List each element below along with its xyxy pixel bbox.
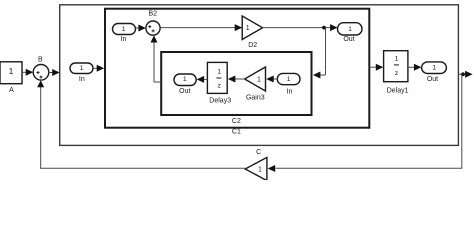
svg-text:In: In (121, 36, 127, 43)
subsystem outer boundary (60, 5, 459, 146)
svg-text:Out: Out (343, 36, 354, 43)
sum block B2 (146, 11, 160, 36)
svg-text:1: 1 (258, 166, 262, 173)
svg-text:1: 1 (246, 25, 250, 32)
unit delay Delay1 (384, 51, 409, 95)
svg-text:1: 1 (257, 77, 261, 84)
outport Out (C2) (174, 74, 196, 95)
wire exit right with junction (458, 71, 472, 78)
wire A to B (22, 69, 33, 76)
wire C1 to Delay1 (369, 64, 383, 71)
inport In (C2) (277, 73, 300, 95)
svg-text:1: 1 (183, 76, 187, 83)
svg-text:Gain3: Gain3 (246, 95, 265, 102)
svg-text:1: 1 (80, 65, 84, 72)
svg-text:1: 1 (432, 64, 436, 71)
gain Gain3 (245, 67, 266, 102)
wire In to C1 (93, 65, 104, 72)
constant block A (0, 62, 22, 94)
wire In to B2 (136, 25, 146, 32)
svg-text:C: C (256, 149, 261, 156)
svg-text:z: z (395, 70, 399, 77)
wire Delay1 to Out (408, 64, 422, 71)
wire B to outer boundary (49, 69, 60, 76)
gain D2 (242, 16, 262, 49)
wire B2 to D2 (160, 24, 242, 31)
wire D2 to Out with junction (263, 24, 338, 31)
svg-text:1: 1 (395, 56, 399, 63)
svg-text:Delay3: Delay3 (209, 98, 231, 105)
outport Out (C1) (338, 23, 363, 43)
svg-text:z: z (217, 82, 221, 89)
outport Out (final) (422, 62, 447, 83)
inport In (outer) (70, 63, 93, 83)
svg-text:C2: C2 (232, 118, 241, 125)
unit delay Delay3 (207, 62, 231, 104)
svg-text:Out: Out (179, 88, 190, 95)
svg-text:D2: D2 (248, 42, 257, 49)
svg-text:In: In (287, 88, 293, 95)
inport In (C1) (113, 24, 136, 44)
svg-text:A: A (9, 87, 14, 94)
svg-text:Out: Out (427, 76, 438, 83)
wire C to sum B feedback (37, 80, 245, 169)
svg-text:1: 1 (9, 66, 14, 76)
subsystem C2 (161, 52, 311, 125)
gain C (245, 149, 267, 181)
wire C2 to B2 feedback (151, 35, 162, 82)
svg-text:Delay1: Delay1 (387, 87, 409, 94)
svg-text:B2: B2 (149, 11, 158, 18)
wire Delay3 to Out (197, 76, 208, 83)
svg-text:1: 1 (287, 76, 291, 83)
sum block B (33, 56, 49, 80)
svg-text:C1: C1 (232, 129, 241, 136)
wire junction down to C2 (313, 28, 326, 79)
svg-text:B: B (38, 56, 43, 63)
wire Gain3 to Delay3 (228, 76, 245, 83)
wire In to Gain3 (266, 76, 277, 83)
svg-text:1: 1 (348, 26, 352, 33)
svg-text:In: In (79, 76, 85, 83)
svg-text:1: 1 (122, 26, 126, 33)
svg-text:1: 1 (217, 68, 221, 75)
wire feedback loop right and bottom (268, 74, 463, 172)
subsystem C1 (105, 9, 369, 136)
